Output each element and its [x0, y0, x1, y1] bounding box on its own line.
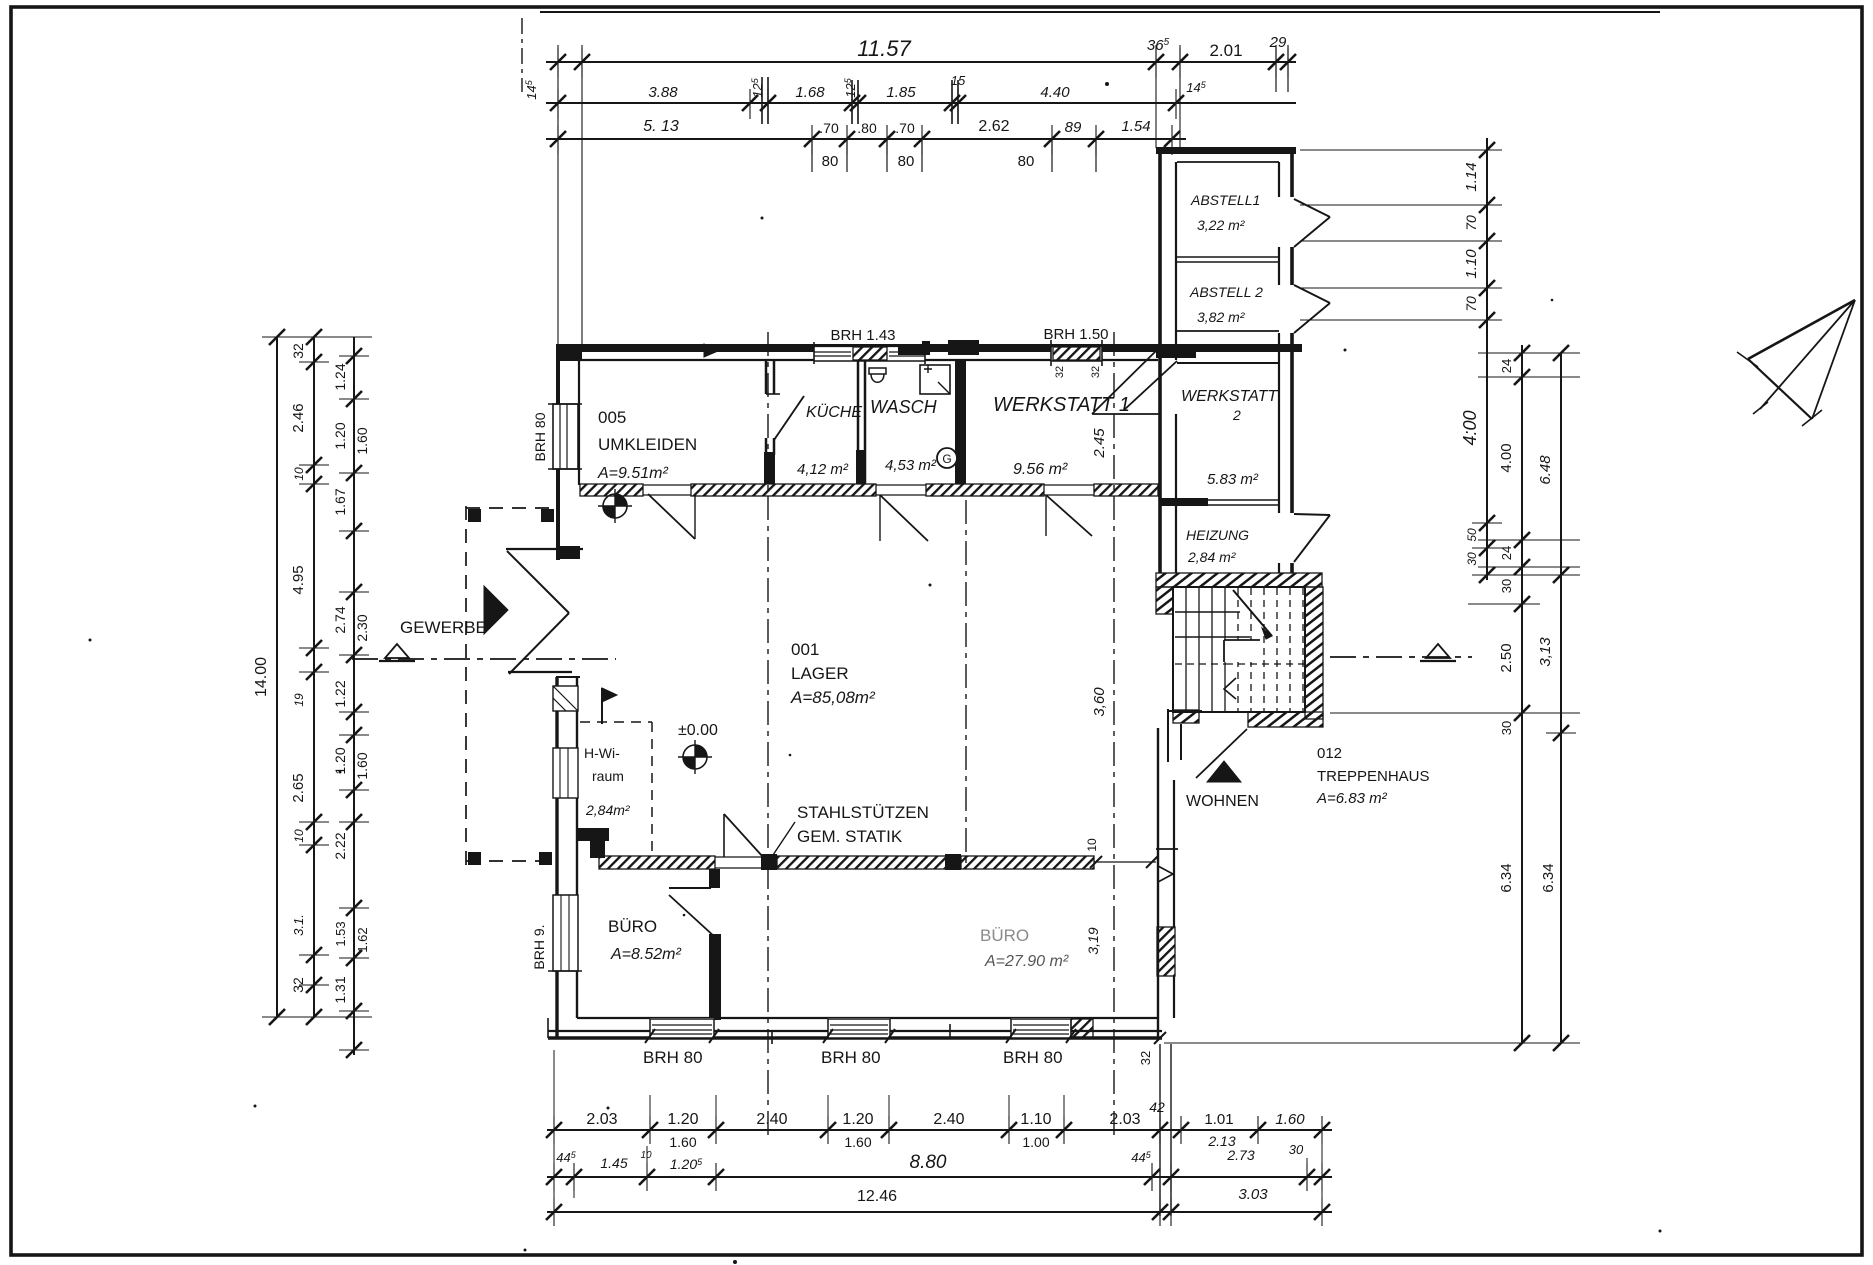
- svg-text:1.10: 1.10: [1463, 249, 1480, 279]
- wall WASCH/WERKSTATT1: [955, 360, 966, 484]
- svg-text:10: 10: [292, 829, 306, 843]
- svg-text:14.00: 14.00: [253, 657, 270, 697]
- svg-text:6.34: 6.34: [1540, 863, 1557, 892]
- door swing WERKSTATT1 (into LAGER): [1046, 495, 1092, 536]
- divider wall between BUEROs: [709, 869, 720, 888]
- svg-text:32: 32: [290, 977, 306, 993]
- svg-text:10: 10: [292, 467, 306, 481]
- svg-text:WASCH: WASCH: [870, 397, 938, 417]
- svg-text:4.95: 4.95: [290, 565, 307, 594]
- svg-text:3.03: 3.03: [1238, 1186, 1268, 1203]
- black T wall piece: [577, 828, 609, 841]
- svg-text:6.34: 6.34: [1498, 863, 1515, 892]
- wall marks window1: [553, 686, 578, 711]
- svg-text:raum: raum: [592, 768, 624, 784]
- ABSTELL2 bottom thin line: [1177, 330, 1279, 332]
- svg-text:A=85,08m²: A=85,08m²: [790, 688, 876, 707]
- bottom dimension chain row 2 (44.5/1.45/1.20.5/8.80/44.5/2.73/30): [547, 1176, 1332, 1178]
- right chains extension lines: [1300, 149, 1500, 151]
- flag symbol: [601, 688, 603, 724]
- svg-text:1.10: 1.10: [1020, 1111, 1051, 1128]
- staircase hatched walls: [1156, 573, 1322, 587]
- svg-text:1.24: 1.24: [332, 363, 348, 390]
- top dimension chain row C (5.13/.70/.80/.70/2.62/89/1.54): [546, 138, 1186, 140]
- grid centre line x=966: [965, 500, 967, 866]
- section line right with triangle: [1330, 656, 1472, 658]
- svg-text:1.14: 1.14: [1463, 162, 1480, 191]
- left dimension chain 14.00: [276, 337, 278, 1017]
- right dimension chain A (1.14/70/1.10/70/4.00/50/30): [1486, 138, 1488, 580]
- svg-text:4:00: 4:00: [1460, 410, 1480, 445]
- svg-text:1.68: 1.68: [795, 84, 825, 101]
- svg-text:80: 80: [1018, 153, 1035, 170]
- svg-text:A=8.52m²: A=8.52m²: [610, 946, 681, 963]
- svg-text:1.20: 1.20: [332, 422, 348, 449]
- washbasin G symbol: [937, 448, 957, 468]
- svg-text:2.30: 2.30: [354, 614, 370, 641]
- bottom dimension chain row 3 (12.46 / 3.03): [547, 1211, 1332, 1213]
- svg-text:012: 012: [1317, 745, 1342, 762]
- svg-text:1.60: 1.60: [844, 1134, 871, 1150]
- black divider arrow on top wall: [704, 344, 718, 357]
- svg-text:3,13: 3,13: [1537, 637, 1554, 667]
- svg-text:1.60: 1.60: [669, 1134, 696, 1150]
- entrance chevron: [506, 548, 583, 550]
- svg-text:19: 19: [292, 693, 306, 707]
- svg-text:.70: .70: [819, 120, 839, 136]
- svg-text:30: 30: [1499, 579, 1514, 593]
- svg-text:1.00: 1.00: [1022, 1134, 1049, 1150]
- svg-text:A=27.90 m²: A=27.90 m²: [984, 953, 1069, 970]
- svg-text:2,84m²: 2,84m²: [585, 802, 631, 818]
- door swing UMKLEIDEN (into LAGER): [648, 494, 695, 539]
- svg-text:3,22 m²: 3,22 m²: [1197, 217, 1246, 233]
- bottom extension lines: [553, 1050, 555, 1216]
- svg-text:50: 50: [1465, 528, 1479, 542]
- column left wall: [1158, 147, 1162, 573]
- divider WERKSTATT2/HEIZUNG: [1177, 499, 1279, 501]
- door wedge HEIZUNG: [1294, 514, 1330, 562]
- svg-text:2.46: 2.46: [290, 403, 307, 432]
- svg-text:32: 32: [1138, 1051, 1153, 1065]
- svg-text:1.53: 1.53: [333, 921, 348, 946]
- svg-text:1.31: 1.31: [332, 976, 348, 1003]
- svg-text:89: 89: [1065, 119, 1082, 136]
- divider ABSTELL1/ABSTELL2: [1177, 256, 1279, 258]
- svg-text:2.22: 2.22: [332, 832, 348, 859]
- svg-text:2: 2: [1232, 407, 1241, 423]
- bottom window 3: [1011, 1018, 1071, 1038]
- WOHNEN door leaf: [1196, 729, 1247, 778]
- svg-text:2.74: 2.74: [332, 606, 348, 633]
- bottom hatched wall of top strip: [580, 484, 643, 496]
- svg-text:BRH 80: BRH 80: [532, 412, 548, 461]
- svg-text:32: 32: [1054, 366, 1066, 378]
- door wedge ABSTELL2: [1294, 285, 1330, 333]
- door blobs in top wall near x950: [898, 345, 924, 355]
- window BRH 90: [553, 895, 578, 971]
- steel columns: [761, 854, 777, 870]
- svg-text:H-Wi-: H-Wi-: [584, 745, 620, 761]
- svg-text:3,60: 3,60: [1091, 687, 1108, 717]
- svg-text:1.45: 1.45: [600, 1155, 627, 1171]
- svg-text:GEWERBE: GEWERBE: [400, 618, 487, 637]
- LAGER door into lower area: [723, 814, 725, 857]
- svg-text:BRH 9.: BRH 9.: [531, 924, 547, 969]
- svg-text:6.48: 6.48: [1537, 455, 1554, 485]
- svg-text:ABSTELL1: ABSTELL1: [1190, 192, 1260, 208]
- svg-text:32: 32: [290, 343, 306, 359]
- forecourt dashed boundary: [465, 506, 467, 866]
- svg-text:3,82 m²: 3,82 m²: [1197, 309, 1246, 325]
- staircase landing: [1224, 640, 1260, 662]
- svg-text:BRH 1.43: BRH 1.43: [830, 327, 895, 344]
- staircase arrow: [1233, 590, 1272, 636]
- svg-text:BRH 1.50: BRH 1.50: [1043, 326, 1108, 343]
- grid centre line x=1114: [1113, 332, 1115, 1135]
- svg-text:1.60: 1.60: [1275, 1111, 1305, 1128]
- svg-text:ABSTELL 2: ABSTELL 2: [1189, 284, 1263, 300]
- svg-text:BÜRO: BÜRO: [608, 917, 657, 936]
- svg-text:30: 30: [1465, 552, 1479, 566]
- svg-text:STAHLSTÜTZEN: STAHLSTÜTZEN: [797, 803, 929, 822]
- svg-text:4.40: 4.40: [1040, 84, 1070, 101]
- svg-text:2.40: 2.40: [756, 1111, 787, 1128]
- survey symbol 2: [603, 494, 627, 518]
- svg-text:3.88: 3.88: [648, 84, 678, 101]
- svg-text:42: 42: [1149, 1099, 1165, 1115]
- svg-text:WOHNEN: WOHNEN: [1186, 793, 1259, 810]
- svg-text:3.1.: 3.1.: [291, 914, 306, 936]
- svg-text:1.62: 1.62: [355, 927, 370, 952]
- window BRH 1.50 in top wall: [1051, 346, 1102, 361]
- WOHNEN arrow: [1207, 761, 1241, 782]
- svg-text:24: 24: [1499, 359, 1514, 373]
- svg-text:1.20: 1.20: [667, 1111, 698, 1128]
- lower right wall: [1157, 728, 1159, 1040]
- right dimension chain C (6.48/3.13/6.34): [1560, 353, 1562, 1043]
- svg-text:BRH 80: BRH 80: [1003, 1048, 1063, 1067]
- top dimension chain row A (11.57 / 36.5 / 2.01 / 29): [546, 61, 1296, 63]
- svg-text:5. 13: 5. 13: [643, 118, 679, 135]
- svg-text:30: 30: [1289, 1142, 1304, 1157]
- svg-text:2.45: 2.45: [1091, 428, 1108, 459]
- svg-text:70: 70: [1463, 296, 1479, 312]
- top dimension chain row B (3.88/1.68/1.85/4.40): [546, 102, 1296, 104]
- hatch patch next to window 3: [1071, 1019, 1093, 1038]
- svg-text:12.46: 12.46: [857, 1188, 897, 1205]
- svg-text:001: 001: [791, 640, 819, 659]
- left dimension chain 2 (32/2.46/10/4.95/19/2.65/10/3.1/32): [313, 337, 315, 1017]
- svg-text:10: 10: [1085, 838, 1099, 852]
- column top wall: [1156, 147, 1296, 154]
- column right inner wall: [1278, 162, 1280, 197]
- svg-text:32: 32: [1090, 366, 1102, 378]
- window BRH 80 left wall: [552, 404, 578, 469]
- corner blob top-left: [556, 344, 582, 361]
- svg-text:4,53 m²: 4,53 m²: [885, 457, 937, 474]
- svg-text:HEIZUNG: HEIZUNG: [1186, 527, 1249, 543]
- svg-text:A=6.83 m²: A=6.83 m²: [1316, 790, 1388, 807]
- svg-text:G: G: [942, 452, 951, 466]
- svg-text:2.73: 2.73: [1226, 1147, 1254, 1163]
- svg-text:3,19: 3,19: [1085, 927, 1101, 954]
- svg-text:1.22: 1.22: [332, 680, 348, 707]
- bottom window 2: [828, 1018, 890, 1038]
- svg-text:1.60: 1.60: [354, 427, 370, 454]
- left chains extension lines: [262, 336, 372, 338]
- svg-text:30: 30: [1499, 721, 1514, 735]
- left outer wall of UMKLEIDEN: [556, 344, 560, 560]
- svg-text:1.54: 1.54: [1121, 118, 1150, 135]
- window BRH 1.43 in top wall: [814, 346, 925, 361]
- survey symbol 1: [683, 745, 707, 769]
- svg-text:005: 005: [598, 408, 626, 427]
- svg-text:.80: .80: [857, 120, 877, 136]
- svg-text:WERKSTATT: WERKSTATT: [1181, 388, 1279, 405]
- bottom window 1: [650, 1018, 714, 1038]
- svg-text:2.62: 2.62: [978, 118, 1009, 135]
- H-W-raum dashed boundary: [580, 721, 652, 723]
- svg-text:±0.00: ±0.00: [678, 722, 718, 739]
- door wedge ABSTELL1: [1294, 199, 1330, 247]
- svg-text:24: 24: [1499, 546, 1514, 560]
- svg-text:A=9.51m²: A=9.51m²: [597, 465, 668, 482]
- svg-text:2.40: 2.40: [933, 1111, 964, 1128]
- staircase inner outline: [1173, 587, 1305, 712]
- svg-text:2.50: 2.50: [1498, 643, 1515, 672]
- column right outer wall: [1290, 147, 1294, 197]
- top extension lines: [557, 45, 559, 345]
- svg-text:LAGER: LAGER: [791, 664, 849, 683]
- bottom wall: [577, 1017, 1158, 1019]
- svg-text:1.20: 1.20: [842, 1111, 873, 1128]
- svg-text:29: 29: [1269, 34, 1287, 51]
- wall UMKLEIDEN/KUECHE: [765, 360, 768, 394]
- opening ticks: [1090, 856, 1102, 868]
- svg-text:4,12 m²: 4,12 m²: [797, 461, 849, 478]
- window edge ticks: [645, 1029, 655, 1043]
- noise: [1105, 82, 1109, 86]
- svg-text:8.80: 8.80: [910, 1152, 947, 1173]
- top wall inner line: [580, 359, 1158, 361]
- staircase steps: [1185, 588, 1187, 711]
- svg-text:4.00: 4.00: [1498, 443, 1515, 472]
- WC toilet symbol: [869, 368, 886, 374]
- KUECHE door leaf: [774, 396, 804, 440]
- shower symbol: [920, 365, 950, 394]
- door wedges WERKSTATT1/2: [1092, 347, 1160, 414]
- grid centre line x=768: [767, 332, 769, 1135]
- svg-text:TREPPENHAUS: TREPPENHAUS: [1317, 768, 1430, 785]
- svg-text:GEM. STATIK: GEM. STATIK: [797, 827, 903, 846]
- left dimension chain 3 (1.24/1.20 1.60/1.67/2.74 2.30/1.22/1.20 1.60/2.22/1.53 1.62/1.31): [353, 337, 355, 1055]
- left wall end cap: [556, 546, 580, 559]
- bottom dimension chain row 1 (2.03/1.20/2.40/1.20/2.40/1.10/2.03/42/1.01/1.60): [547, 1129, 1332, 1131]
- left wall lower (H-W-raum): [555, 677, 558, 1037]
- junction blob: [1156, 344, 1196, 358]
- svg-text:70: 70: [1463, 215, 1479, 231]
- svg-text:11.57: 11.57: [857, 36, 911, 61]
- svg-text:5.83 m²: 5.83 m²: [1207, 471, 1259, 488]
- svg-text:.70: .70: [895, 120, 915, 136]
- svg-text:BÜRO: BÜRO: [980, 926, 1029, 945]
- svg-text:10: 10: [640, 1150, 652, 1161]
- svg-text:BRH 80: BRH 80: [821, 1048, 881, 1067]
- svg-text:2.03: 2.03: [586, 1111, 617, 1128]
- wall KUECHE/WASCH: [857, 360, 860, 484]
- top outer wall band: [556, 344, 1302, 352]
- hatched wall above BUERO: [599, 856, 715, 869]
- svg-text:1.01: 1.01: [1204, 1111, 1233, 1128]
- forecourt posts: [468, 509, 481, 522]
- lower right wall opening marks: [1156, 848, 1178, 850]
- door swing WASCH (into LAGER): [880, 495, 928, 541]
- north arrow: [1748, 300, 1855, 359]
- lower stair wall stubs: [1167, 709, 1169, 762]
- svg-text:BRH 80: BRH 80: [643, 1048, 703, 1067]
- svg-text:2.01: 2.01: [1209, 41, 1242, 60]
- svg-text:80: 80: [822, 153, 839, 170]
- svg-text:1.60: 1.60: [354, 752, 370, 779]
- window centre T-marks: [771, 1031, 773, 1044]
- svg-text:UMKLEIDEN: UMKLEIDEN: [598, 435, 697, 454]
- svg-text:80: 80: [898, 153, 915, 170]
- svg-text:1.85: 1.85: [886, 84, 916, 101]
- right dimension chain B (24/4.00/24/30/2.50/30/6.34): [1521, 345, 1523, 1043]
- svg-text:9.56 m²: 9.56 m²: [1013, 461, 1068, 478]
- svg-text:2,84 m²: 2,84 m²: [1187, 549, 1237, 565]
- svg-text:KÜCHE: KÜCHE: [806, 403, 862, 421]
- svg-text:2.65: 2.65: [290, 773, 307, 802]
- section line left with triangle: [352, 658, 616, 660]
- wall marks window2: [553, 748, 578, 798]
- svg-text:1.67: 1.67: [332, 488, 348, 515]
